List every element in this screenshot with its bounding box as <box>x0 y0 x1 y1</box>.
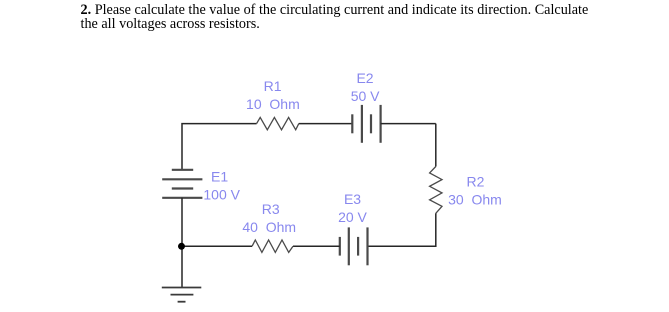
label R3 40 Ohm <box>242 201 296 235</box>
problem statement text <box>81 3 589 32</box>
svg-text:E3: E3 <box>344 191 361 207</box>
battery E1 <box>162 170 202 198</box>
wire R3 to node <box>182 245 252 247</box>
wire right side down to R2 <box>435 124 437 167</box>
wire E1 to node and ground <box>181 198 183 288</box>
wire E3 to R3 <box>293 245 340 247</box>
svg-text:30 Ohm: 30 Ohm <box>448 192 502 208</box>
wire R2 to bottom-right corner <box>368 213 436 246</box>
label E2 50 V <box>351 70 380 104</box>
resistor R1 <box>257 117 299 129</box>
svg-text:100 V: 100 V <box>203 187 240 203</box>
label E3 20 V <box>338 191 367 225</box>
ground <box>162 288 202 302</box>
wire E2 to top-right corner <box>381 123 436 125</box>
wire top-left to R1 <box>182 124 257 170</box>
svg-text:R2: R2 <box>467 174 485 190</box>
label R1 10 Ohm <box>246 78 300 112</box>
svg-text:10 Ohm: 10 Ohm <box>246 96 300 112</box>
battery E2 <box>352 105 380 143</box>
label R2 30 Ohm <box>448 174 502 208</box>
svg-text:40 Ohm: 40 Ohm <box>242 219 296 235</box>
resistor R3 <box>252 240 293 252</box>
node junction dot <box>178 243 185 250</box>
wire R1 to E2 <box>299 123 353 125</box>
battery E3 <box>340 227 368 265</box>
svg-text:R3: R3 <box>262 201 280 217</box>
svg-text:20 V: 20 V <box>338 209 367 225</box>
label E1 100 V <box>203 169 240 203</box>
svg-text:E1: E1 <box>211 169 228 185</box>
resistor R2 <box>430 167 442 214</box>
svg-text:E2: E2 <box>356 70 373 86</box>
svg-text:R1: R1 <box>264 78 282 94</box>
svg-text:50 V: 50 V <box>351 88 380 104</box>
